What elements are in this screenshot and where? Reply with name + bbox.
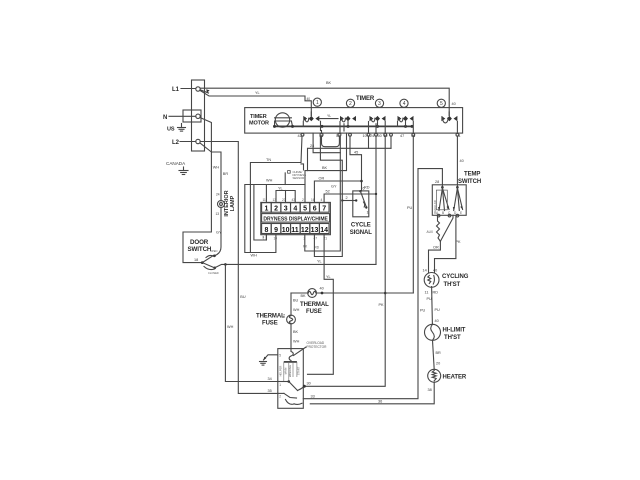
svg-text:START: START — [297, 366, 301, 375]
svg-text:47: 47 — [400, 134, 404, 138]
svg-text:40: 40 — [452, 102, 456, 106]
motor ground — [260, 355, 278, 365]
timer switch contact 3 — [369, 116, 386, 133]
wire pin8 stub — [265, 234, 267, 241]
svg-text:5: 5 — [440, 101, 443, 107]
svg-text:18: 18 — [194, 258, 198, 262]
dryness display chime label bar — [262, 214, 330, 223]
interior lamp — [216, 190, 237, 216]
svg-text:WH: WH — [293, 308, 300, 312]
hi-limit thermostat — [425, 319, 466, 341]
svg-text:50: 50 — [378, 134, 382, 138]
svg-text:52: 52 — [326, 190, 330, 194]
timer cam number 5 — [437, 99, 445, 107]
svg-text:OR: OR — [433, 246, 439, 250]
wire heater bottom to motor — [310, 382, 434, 404]
svg-text:BU: BU — [293, 299, 299, 303]
svg-text:13: 13 — [311, 227, 319, 234]
svg-text:7: 7 — [262, 236, 264, 240]
svg-text:12: 12 — [301, 227, 309, 234]
connector pins 8-14 — [262, 224, 329, 234]
svg-text:WH: WH — [213, 166, 220, 170]
svg-text:DOOR: DOOR — [190, 239, 209, 246]
svg-text:38: 38 — [428, 388, 432, 392]
timer terminal rings — [301, 133, 459, 136]
svg-text:4: 4 — [321, 198, 323, 202]
door switch — [188, 239, 219, 275]
wire WH door to motor terminal 1 — [225, 264, 277, 381]
timer common rail — [273, 125, 414, 128]
svg-text:E: E — [460, 211, 462, 215]
svg-text:1: 1 — [367, 211, 369, 215]
svg-text:33: 33 — [311, 394, 315, 398]
timer switch contact 2 — [339, 116, 356, 133]
svg-text:PU: PU — [427, 297, 433, 301]
terminal L2 — [172, 139, 200, 146]
wire bus 24 under timer — [308, 136, 392, 171]
svg-text:CYCLE: CYCLE — [351, 223, 371, 229]
wire loop timer 45 to 51 — [320, 133, 341, 147]
cycling thermostat — [423, 269, 469, 302]
svg-text:WINDING: WINDING — [288, 365, 292, 377]
heater element — [428, 369, 467, 392]
svg-text:11: 11 — [263, 198, 267, 202]
svg-text:6: 6 — [313, 206, 317, 213]
svg-text:L2: L2 — [172, 140, 180, 146]
svg-text:YL: YL — [255, 91, 260, 95]
svg-text:40: 40 — [435, 319, 439, 323]
svg-text:TN: TN — [266, 158, 271, 162]
svg-text:40: 40 — [460, 159, 464, 163]
motor windings — [278, 362, 300, 382]
svg-text:1: 1 — [265, 206, 269, 213]
svg-text:SIGNAL: SIGNAL — [350, 230, 373, 236]
wire BK timer to pin5 — [305, 133, 347, 202]
motor terminal 2 — [278, 393, 284, 398]
svg-text:DRYNESS DISPLAY/CHIME: DRYNESS DISPLAY/CHIME — [263, 216, 328, 222]
wire YL pins 2-3-4 — [276, 186, 295, 202]
wire timer 1 to temp switch — [457, 136, 463, 186]
svg-text:HI-LIMIT: HI-LIMIT — [443, 328, 466, 334]
svg-text:PROTECTOR: PROTECTOR — [307, 345, 328, 349]
connector pins 1-7 — [262, 203, 329, 213]
terminal L1 — [172, 87, 200, 93]
connector pin stub numbers top — [263, 198, 323, 202]
svg-text:WH: WH — [293, 340, 300, 344]
svg-text:1: 1 — [316, 100, 319, 106]
svg-text:11: 11 — [425, 291, 429, 295]
svg-text:1: 1 — [279, 383, 281, 387]
svg-text:40: 40 — [307, 97, 311, 101]
svg-text:YL: YL — [326, 275, 331, 279]
svg-text:B: B — [442, 211, 444, 215]
svg-text:4: 4 — [403, 101, 406, 107]
svg-text:30: 30 — [307, 382, 311, 386]
svg-text:10: 10 — [282, 227, 290, 234]
svg-text:BU: BU — [240, 295, 246, 299]
svg-text:PU: PU — [435, 308, 441, 312]
svg-text:20: 20 — [436, 362, 440, 366]
timer motor M1 — [249, 113, 293, 127]
temp switch contacts — [433, 186, 463, 217]
svg-text:HEATER: HEATER — [443, 375, 467, 381]
svg-text:US: US — [167, 127, 175, 133]
svg-text:9: 9 — [274, 227, 278, 234]
wire timer to motor terminal (line M) — [305, 136, 387, 386]
svg-text:LAMP: LAMP — [230, 195, 236, 211]
wire pin14 to motor — [308, 235, 334, 375]
svg-text:14: 14 — [423, 269, 427, 273]
timer cam number 2 — [346, 99, 354, 107]
timer cam number 4 — [400, 99, 408, 107]
svg-text:YL: YL — [278, 186, 283, 190]
wire BR L2 contact to interior lamp — [200, 143, 228, 201]
svg-text:RD: RD — [315, 246, 320, 250]
svg-text:34: 34 — [268, 377, 272, 381]
svg-text:PU: PU — [420, 309, 426, 313]
wire timer to door switch trunk — [375, 136, 377, 264]
svg-text:WH: WH — [251, 254, 258, 258]
temp switch box — [432, 172, 481, 216]
svg-text:TIMER: TIMER — [250, 114, 267, 120]
wire BK from L1 to timer contact 5 — [200, 81, 456, 116]
svg-text:YL: YL — [327, 114, 331, 118]
wire OR pin6 to trunk — [314, 177, 369, 203]
wire temp to cycling right — [435, 215, 456, 273]
overload protector — [279, 341, 327, 361]
svg-text:BR: BR — [223, 172, 229, 176]
svg-text:2: 2 — [349, 101, 352, 107]
temp switch aux resistor — [427, 215, 441, 241]
thermal fuse (left) — [256, 293, 300, 349]
svg-text:36: 36 — [378, 399, 382, 403]
svg-text:HELPER: HELPER — [278, 366, 282, 377]
svg-text:THERMAL: THERMAL — [256, 314, 285, 320]
svg-text:7: 7 — [322, 206, 326, 213]
wire YL from L1 to timer contact 1 — [200, 91, 311, 116]
svg-text:MOTOR: MOTOR — [249, 121, 269, 127]
wire pin12 to timer trunk — [305, 133, 341, 251]
thermal fuse (right) — [291, 287, 413, 316]
svg-text:2: 2 — [283, 314, 285, 318]
timer switch contact 5 — [441, 112, 457, 133]
timer cam number 1 — [313, 98, 321, 106]
connector pin stub numbers bottom — [263, 237, 328, 250]
svg-text:PU: PU — [407, 206, 413, 210]
svg-text:RD: RD — [364, 186, 370, 190]
svg-text:40: 40 — [433, 269, 437, 273]
svg-text:14: 14 — [320, 227, 328, 234]
svg-text:BK: BK — [293, 330, 299, 334]
svg-text:8: 8 — [265, 227, 269, 234]
svg-text:6: 6 — [363, 187, 365, 191]
svg-text:4: 4 — [293, 206, 297, 213]
wire 52 pin7 to cycle signal — [324, 190, 377, 203]
svg-text:3: 3 — [378, 101, 381, 107]
svg-text:TIMER: TIMER — [356, 96, 375, 102]
wire hi-limit to heater — [433, 340, 442, 369]
svg-text:5: 5 — [303, 206, 307, 213]
svg-text:24: 24 — [216, 193, 220, 197]
motor terminal 1 — [278, 380, 290, 387]
svg-text:BR: BR — [436, 351, 442, 355]
terminal block TB1 — [183, 80, 205, 151]
svg-text:45: 45 — [354, 151, 358, 155]
svg-text:2: 2 — [274, 206, 278, 213]
terminal N — [163, 114, 200, 121]
timer box — [245, 96, 463, 133]
svg-text:10: 10 — [363, 134, 367, 138]
svg-text:35: 35 — [268, 389, 272, 393]
wire BU L2 to motor terminal 2 — [200, 142, 278, 394]
dryness display connector outer box — [261, 202, 331, 234]
svg-text:BK: BK — [326, 81, 332, 85]
svg-text:13: 13 — [216, 212, 220, 216]
ground US — [167, 124, 186, 133]
drive motor box — [278, 349, 304, 409]
cycle signal switch — [350, 187, 373, 237]
svg-text:10: 10 — [274, 237, 278, 241]
svg-text:40: 40 — [320, 287, 324, 291]
svg-text:CLOSED: CLOSED — [208, 271, 219, 275]
svg-text:28: 28 — [435, 180, 439, 184]
temp switch blade to V point — [440, 215, 461, 244]
svg-text:FUSE: FUSE — [306, 309, 322, 315]
wire cycling to hi-limit — [432, 287, 440, 325]
svg-text:SWITCH: SWITCH — [188, 246, 212, 253]
timer cam number 3 — [375, 99, 383, 107]
svg-text:2: 2 — [279, 395, 281, 399]
svg-text:AUX: AUX — [427, 230, 434, 234]
wire pin13 to timer trunk — [314, 136, 342, 256]
svg-text:WH: WH — [266, 179, 273, 183]
wire TN timer to pin9 trunk — [245, 136, 305, 257]
svg-text:N: N — [163, 115, 167, 121]
svg-text:OR: OR — [319, 177, 325, 181]
svg-text:24: 24 — [370, 134, 374, 138]
svg-text:SWITCH: SWITCH — [458, 179, 481, 185]
svg-text:FUSE: FUSE — [262, 321, 278, 327]
svg-text:CANADA: CANADA — [166, 161, 186, 166]
svg-text:11: 11 — [291, 227, 299, 234]
svg-text:CYCLING: CYCLING — [442, 274, 469, 280]
timer switch contact 4 — [398, 116, 414, 133]
svg-text:BK: BK — [301, 294, 307, 298]
wire door switch to right trunk — [215, 260, 376, 268]
svg-text:TH'ST: TH'ST — [444, 335, 461, 341]
svg-text:TH'ST: TH'ST — [444, 282, 461, 288]
svg-text:3: 3 — [284, 206, 288, 213]
svg-text:OPEN: OPEN — [210, 249, 217, 253]
svg-text:MAIN: MAIN — [284, 368, 288, 375]
timer switch contact 1 — [303, 112, 338, 133]
svg-text:YL: YL — [317, 260, 322, 264]
svg-text:2: 2 — [302, 198, 304, 202]
svg-text:5: 5 — [279, 354, 281, 358]
svg-text:PK: PK — [379, 303, 385, 307]
ground CANADA — [166, 161, 188, 175]
svg-text:RD: RD — [433, 291, 439, 295]
wire WH pin1 to pin8 wrap — [254, 179, 273, 241]
wire motor centrifugal to temp feeder — [303, 169, 442, 399]
wire N to door switch wrap — [183, 118, 219, 263]
svg-text:TEMP: TEMP — [464, 172, 480, 178]
svg-text:GY: GY — [216, 231, 222, 235]
svg-text:SENSOR: SENSOR — [293, 176, 305, 180]
motor centrifugal switch — [284, 382, 311, 405]
svg-text:2: 2 — [346, 196, 348, 200]
wire lamp to door switch — [215, 207, 222, 256]
timer terminal numbers — [298, 134, 461, 138]
wire timer 48 to thermal fuse line — [407, 136, 413, 293]
svg-text:BK: BK — [322, 166, 328, 170]
svg-text:L1: L1 — [172, 87, 180, 93]
svg-text:WH: WH — [227, 325, 234, 329]
dryness sensor mini module — [285, 164, 306, 185]
svg-text:THERMAL: THERMAL — [300, 302, 329, 308]
svg-text:GY: GY — [331, 185, 337, 189]
wire timer to cycle signal — [350, 136, 362, 191]
wire temp to cycling left — [429, 241, 441, 273]
